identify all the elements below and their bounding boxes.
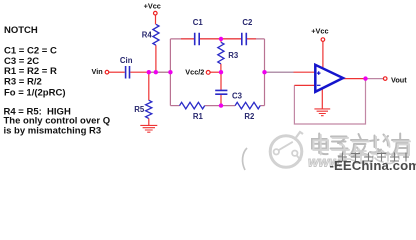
- svg-text:R5: R5: [134, 105, 145, 114]
- svg-text:+Vcc: +Vcc: [144, 2, 161, 11]
- svg-text:Vin: Vin: [92, 67, 103, 76]
- svg-text:R3 = R/2: R3 = R/2: [4, 76, 42, 87]
- svg-text:R1: R1: [193, 112, 204, 121]
- svg-text:+Vcc: +Vcc: [311, 27, 328, 36]
- svg-text:R2: R2: [244, 112, 255, 121]
- svg-text:Cin: Cin: [120, 56, 133, 65]
- svg-text:C2: C2: [242, 18, 253, 27]
- svg-text:C3: C3: [232, 91, 243, 100]
- svg-text:NOTCH: NOTCH: [4, 25, 38, 36]
- svg-text:C1: C1: [193, 18, 204, 27]
- svg-text:is by mismatching R3: is by mismatching R3: [4, 125, 102, 136]
- svg-text:Vcc/2: Vcc/2: [185, 68, 204, 77]
- svg-text:R4: R4: [142, 31, 153, 40]
- svg-text:R3: R3: [228, 51, 239, 60]
- svg-text:Vout: Vout: [391, 75, 407, 84]
- svg-text:Fo = 1/(2pRC): Fo = 1/(2pRC): [4, 88, 66, 99]
- svg-text:-EEChina.com: -EEChina.com: [330, 158, 416, 173]
